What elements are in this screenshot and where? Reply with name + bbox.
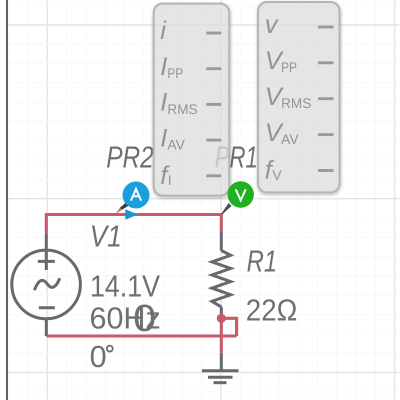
svg-text:PP: PP (281, 59, 297, 75)
meter row I_AV (160, 124, 221, 152)
meter row f_V (265, 157, 334, 185)
svg-text:I: I (160, 124, 167, 152)
meter row f_I (160, 162, 221, 190)
svg-text:v: v (265, 11, 279, 39)
svg-text:I: I (168, 172, 172, 188)
probe PR2 ammeter (115, 182, 149, 214)
svg-text:V: V (272, 167, 282, 183)
current direction arrow (125, 209, 138, 220)
meter row I_RMS (160, 89, 221, 117)
wire ground stem (220, 318, 223, 353)
voltage source V1 (12, 234, 81, 336)
junction (R1 bottom / ground net) (217, 314, 226, 323)
svg-text:AV: AV (167, 137, 185, 153)
meter row i (160, 17, 221, 45)
probe PR1 voltmeter (221, 181, 254, 214)
svg-text:AV: AV (281, 131, 299, 147)
meter row v (265, 11, 334, 39)
svg-text:0: 0 (90, 340, 107, 374)
svg-text:I: I (160, 89, 167, 117)
voltage meter panel (PR1 readouts) (258, 2, 340, 192)
wire loop (R1 bottom to bottom net) (221, 318, 236, 336)
wire bottom (V1 minus to ground net) (46, 334, 236, 337)
svg-text:V1: V1 (90, 219, 122, 253)
svg-text:PR2: PR2 (106, 140, 154, 174)
svg-text:R1: R1 (247, 244, 278, 278)
svg-text:22Ω: 22Ω (246, 293, 297, 327)
svg-text:RMS: RMS (281, 95, 311, 111)
meter row V_PP (265, 47, 334, 75)
svg-text:I: I (160, 53, 167, 81)
svg-text:0: 0 (133, 298, 156, 340)
svg-text:PP: PP (167, 65, 183, 81)
wire top (V1 plus to R1 top) (46, 215, 221, 234)
meter row V_RMS (265, 83, 334, 111)
meter row V_AV (265, 119, 334, 147)
meter row I_PP (160, 53, 221, 81)
value 0 degrees (90, 340, 113, 374)
ground (202, 353, 239, 383)
resistor R1 (212, 232, 231, 315)
current meter panel (PR2 readouts) (154, 4, 230, 196)
svg-text:RMS: RMS (167, 101, 197, 117)
